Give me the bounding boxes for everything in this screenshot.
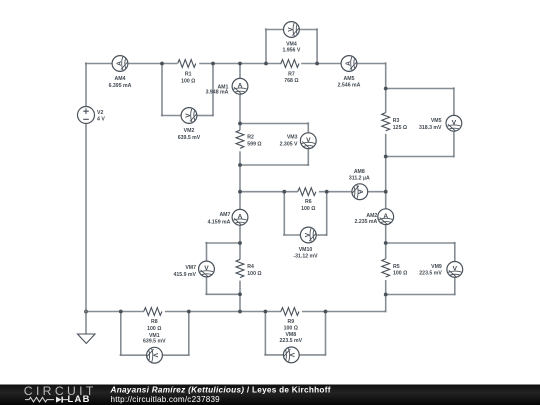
wire VM5 loop right lower xyxy=(453,131,455,156)
svg-text:3.948 mA: 3.948 mA xyxy=(206,90,229,96)
wire VM8 loop left vertical xyxy=(264,312,266,355)
wire VM1 loop right vertical xyxy=(188,312,190,356)
resistor R6 xyxy=(298,188,316,212)
resistor R4 xyxy=(236,259,261,277)
svg-text:100 Ω: 100 Ω xyxy=(147,326,161,332)
svg-text:2.235 mA: 2.235 mA xyxy=(355,219,378,225)
svg-text:LAB: LAB xyxy=(68,393,91,404)
wire VM7 loop top horizontal xyxy=(207,242,241,244)
svg-text:AM5: AM5 xyxy=(344,76,355,82)
resistor R9 xyxy=(280,308,303,344)
svg-text:4 V: 4 V xyxy=(97,117,105,123)
wire right bus loop bottom to AM8 node xyxy=(385,157,387,192)
resistor R3 xyxy=(382,113,407,132)
wire VM4 loop top left xyxy=(266,29,283,31)
wire VM9 loop right upper xyxy=(454,243,456,262)
wire right bus to bottom bus xyxy=(385,295,387,312)
voltage source V2 xyxy=(78,107,106,124)
svg-text:Anayansi Ramírez (Kettulicious: Anayansi Ramírez (Kettulicious) / Leyes … xyxy=(110,385,331,394)
node D (AM7/R4/VM7) xyxy=(238,241,242,245)
node top-D (VM4 left) xyxy=(264,62,268,66)
wire top bus left of AM4 xyxy=(86,63,112,65)
voltmeter VM10 xyxy=(300,227,316,243)
svg-text:100 Ω: 100 Ω xyxy=(301,206,315,212)
voltmeter VM3 xyxy=(300,133,316,149)
wire VM4 loop left vertical xyxy=(265,30,267,64)
wire AM1 branch upper xyxy=(239,64,241,79)
wire right bus R3 to loop bottom xyxy=(385,134,387,157)
svg-text:R4: R4 xyxy=(247,264,254,270)
node ground / V2 xyxy=(84,310,88,314)
svg-text:http://circuitlab.com/c237839: http://circuitlab.com/c237839 xyxy=(111,395,221,404)
svg-text:1.956 V: 1.956 V xyxy=(282,48,300,54)
node VM5 bottom xyxy=(384,155,388,159)
wire VM5 loop top horizontal xyxy=(386,88,454,90)
wire bottom bus R9 to right bus xyxy=(302,311,386,313)
wire right bus AM8 node to AM2 xyxy=(385,192,387,209)
svg-text:768 Ω: 768 Ω xyxy=(284,78,298,84)
wire VM8 loop bottom right xyxy=(299,354,325,356)
wire VM10 loop bottom right xyxy=(316,234,327,236)
svg-text:-31.12 mV: -31.12 mV xyxy=(293,254,318,260)
wire VM4 loop right vertical xyxy=(316,30,318,64)
wire VM7 loop bottom horizontal xyxy=(207,293,241,295)
wire node C to R6 xyxy=(240,191,298,193)
svg-text:AM8: AM8 xyxy=(354,169,365,175)
wire bottom bus ground to R8 xyxy=(86,311,144,313)
wire AM8 to right bus xyxy=(368,191,386,193)
resistor R8 xyxy=(143,308,166,345)
wire VM3 top stub xyxy=(307,124,309,133)
svg-text:R5: R5 xyxy=(393,264,400,270)
wire VM3 bottom stub xyxy=(307,149,309,165)
node VM9 top xyxy=(384,241,388,245)
wire VM9 loop right lower xyxy=(454,277,456,294)
wire VM10 loop bottom left xyxy=(284,234,300,236)
svg-text:311.2 µA: 311.2 µA xyxy=(349,176,370,182)
wire R4 to node E xyxy=(239,281,241,312)
wire VM9 loop top horizontal xyxy=(386,242,455,244)
wire R2 bottom to node C xyxy=(239,151,241,191)
resistor R5 xyxy=(382,259,407,277)
ammeter AM2 xyxy=(378,209,394,225)
svg-text:VM7: VM7 xyxy=(185,265,196,271)
ground xyxy=(78,334,96,344)
node AM8 / right bus xyxy=(384,190,388,194)
svg-text:R1: R1 xyxy=(185,72,192,78)
wire VM10 loop left vertical xyxy=(283,192,285,235)
wire VM5 loop bottom horizontal xyxy=(386,156,454,158)
voltmeter VM1 xyxy=(147,347,163,363)
svg-text:VM9: VM9 xyxy=(431,264,442,270)
svg-text:6.395 mA: 6.395 mA xyxy=(109,83,132,89)
svg-text:2.546 mA: 2.546 mA xyxy=(338,82,361,88)
wire VM7 loop left upper xyxy=(206,243,208,261)
svg-text:100 Ω: 100 Ω xyxy=(181,79,195,85)
wire VM2 loop bottom right xyxy=(197,115,213,117)
svg-text:R2: R2 xyxy=(247,135,254,141)
ammeter AM5 xyxy=(341,56,357,72)
svg-text:VM3: VM3 xyxy=(287,135,298,141)
svg-text:AM4: AM4 xyxy=(115,76,126,82)
svg-text:639.5 mV: 639.5 mV xyxy=(143,338,166,344)
ammeter AM8 xyxy=(352,184,368,200)
wire VM8 loop bottom left xyxy=(265,354,283,356)
svg-text:599 Ω: 599 Ω xyxy=(247,142,261,148)
wire VM2 loop bottom left xyxy=(162,115,181,117)
node top-A (VM2 left / R1) xyxy=(160,62,164,66)
node VM1 right xyxy=(187,310,191,314)
wire AM7 to node D xyxy=(239,225,241,259)
voltmeter VM7 xyxy=(199,261,215,277)
svg-text:R8: R8 xyxy=(151,319,158,325)
node VM8 left xyxy=(264,310,268,314)
wire top bus AM5 to right corner xyxy=(357,63,386,65)
ammeter AM7 xyxy=(232,209,248,225)
node B (AM1/R2/VM3) xyxy=(238,122,242,126)
wire VM1 loop bottom right xyxy=(162,354,188,356)
node R4 bottom bus xyxy=(238,310,242,314)
wire left bus upper (V2 to top corner) xyxy=(85,64,87,107)
ammeter AM1 xyxy=(232,78,248,94)
wire left bus lower (V2 to bottom bus) xyxy=(85,124,87,312)
node VM1 left xyxy=(119,310,123,314)
node E (R4/VM7 bottom) xyxy=(238,292,242,296)
voltmeter VM8 xyxy=(283,347,299,363)
svg-text:VM5: VM5 xyxy=(431,118,442,124)
svg-text:2.305 V: 2.305 V xyxy=(280,142,298,148)
svg-text:4.159 mA: 4.159 mA xyxy=(208,220,231,226)
wire node C to AM7 xyxy=(239,192,241,210)
node top-E (VM4 right) xyxy=(315,62,319,66)
voltmeter VM4 xyxy=(284,22,300,38)
wire right bus AM2 to VM9 node xyxy=(385,225,387,243)
wire corner junction marks xyxy=(85,28,456,356)
svg-text:R7: R7 xyxy=(288,71,295,77)
node VM5 top xyxy=(384,87,388,91)
voltmeter VM2 xyxy=(181,108,197,124)
CircuitLab logo symbol (resistor and diode) xyxy=(25,397,68,402)
wire bottom bus R8 to R9 xyxy=(165,311,281,313)
wire VM3 loop top horizontal xyxy=(240,123,308,125)
svg-text:R3: R3 xyxy=(393,118,400,124)
node top-B (R1 / VM2 right) xyxy=(211,62,215,66)
wire VM7 loop left lower xyxy=(206,277,208,294)
node VM10 left xyxy=(282,190,286,194)
wire VM4 loop top right xyxy=(299,29,317,31)
wire VM2 loop left vertical xyxy=(161,64,163,116)
node top-C (AM1 branch) xyxy=(238,62,242,66)
wire right bus VM5 node to R3 xyxy=(385,89,387,113)
resistor R2 xyxy=(236,130,261,148)
resistor R7 xyxy=(281,60,299,84)
wire VM9 loop bottom horizontal xyxy=(386,294,455,296)
svg-text:125 Ω: 125 Ω xyxy=(393,125,407,131)
wire VM1 loop bottom left xyxy=(121,354,147,356)
voltmeter VM5 xyxy=(446,115,462,131)
wire top bus R7 to AM5 xyxy=(301,63,341,65)
wire VM10 loop right vertical xyxy=(326,192,328,235)
svg-text:318.3 mV: 318.3 mV xyxy=(419,125,442,131)
svg-text:100 Ω: 100 Ω xyxy=(284,326,298,332)
wire AM1 to R2 xyxy=(239,94,241,130)
svg-text:AM7: AM7 xyxy=(219,212,230,218)
wire R6 to AM8 xyxy=(319,191,352,193)
svg-text:223.5 mV: 223.5 mV xyxy=(280,338,303,344)
wire VM5 loop right upper xyxy=(453,89,455,116)
svg-text:R9: R9 xyxy=(287,319,294,325)
wire VM8 loop right vertical xyxy=(325,312,327,355)
svg-text:415.9 mV: 415.9 mV xyxy=(174,272,197,278)
wire right bus R5 to loop bottom xyxy=(385,280,387,295)
wire top bus R1 to R7 xyxy=(199,63,281,65)
wire VM3 loop bottom horizontal xyxy=(240,164,308,166)
wire top bus AM4 to node A xyxy=(128,63,177,65)
svg-text:R6: R6 xyxy=(305,199,312,205)
node R2 bottom / VM3 return xyxy=(238,163,242,167)
wire VM2 loop right vertical xyxy=(212,64,214,116)
svg-text:VM10: VM10 xyxy=(299,247,313,253)
voltmeter VM9 xyxy=(447,262,463,278)
footer bar xyxy=(0,385,540,405)
wire ground stem xyxy=(85,312,87,335)
node VM10 right xyxy=(325,190,329,194)
node VM8 right xyxy=(324,310,328,314)
node C (R2/R6/AM7) xyxy=(238,190,242,194)
resistor R1 xyxy=(178,60,196,85)
svg-text:100 Ω: 100 Ω xyxy=(393,270,407,276)
node VM9 bottom xyxy=(384,293,388,297)
svg-text:639.5 mV: 639.5 mV xyxy=(178,135,201,141)
svg-text:100 Ω: 100 Ω xyxy=(247,271,261,277)
svg-text:223.5 mV: 223.5 mV xyxy=(419,270,442,276)
ammeter AM4 xyxy=(112,56,128,72)
svg-text:VM2: VM2 xyxy=(184,128,195,134)
svg-text:V2: V2 xyxy=(97,110,103,116)
wire right bus top corner to VM5 node xyxy=(385,64,387,89)
wire right bus VM9 node to R5 xyxy=(385,243,387,259)
wire VM1 loop left vertical xyxy=(120,312,122,356)
